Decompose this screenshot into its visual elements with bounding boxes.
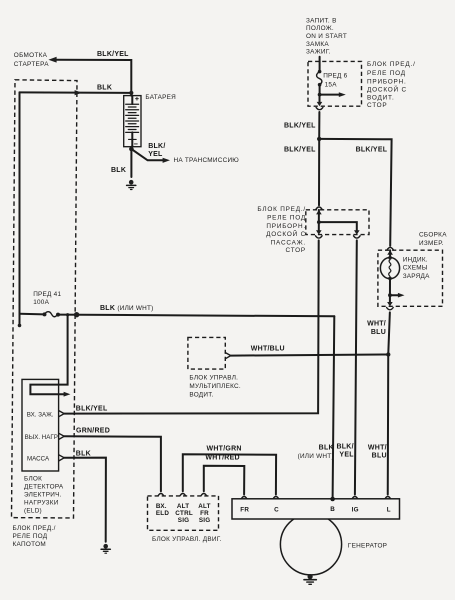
svg-text:МАССА: МАССА	[27, 455, 50, 462]
connector dome at generator IG	[352, 497, 358, 499]
svg-text:ON И START: ON И START	[306, 33, 347, 40]
svg-text:BLK/YEL: BLK/YEL	[97, 51, 129, 58]
svg-text:ВОДИТ.: ВОДИТ.	[367, 95, 395, 102]
svg-text:GRN/RED: GRN/RED	[76, 428, 110, 435]
ECM box БЛОК УПРАВЛ. ДВИГ. (dashed)	[148, 496, 219, 530]
branch arrow inside fuse box (feed to other circuits)	[318, 92, 346, 97]
svg-text:СТОР: СТОР	[367, 102, 387, 109]
svg-text:ЭЛЕКТРИЧ.: ЭЛЕКТРИЧ.	[24, 492, 62, 499]
svg-text:ДОСКОЙ С: ДОСКОЙ С	[266, 229, 306, 238]
fuse F6 15A element	[317, 70, 322, 95]
svg-text:СТАРТЕРА: СТАРТЕРА	[14, 61, 49, 68]
svg-text:БЛОК УПРАВЛ.: БЛОК УПРАВЛ.	[189, 375, 238, 382]
ground G2 (generator)	[304, 574, 316, 584]
svg-text:BLK/YEL: BLK/YEL	[356, 147, 388, 154]
pin fork ВЫХ.НАГР	[59, 433, 64, 439]
wire WHT/BLU gauge assembly down to generator L	[386, 312, 390, 494]
svg-text:BLU: BLU	[372, 453, 387, 460]
svg-text:ПРЕД 41: ПРЕД 41	[33, 291, 61, 298]
svg-text:BLK: BLK	[319, 444, 334, 451]
svg-text:BLK/: BLK/	[336, 443, 353, 450]
svg-text:BLK: BLK	[111, 167, 126, 174]
svg-text:ВЫХ. НАГР: ВЫХ. НАГР	[25, 434, 58, 441]
connector dome at ECM ВХ.ELD	[158, 494, 164, 496]
fuse F6 15A feed stub from ignition switch	[319, 57, 321, 72]
wire: left bus vertical inside under-hood box	[18, 92, 22, 327]
connector entry at top of gauge assembly (cup + arrow)	[387, 247, 394, 254]
svg-text:B: B	[330, 506, 335, 513]
pin fork of multiplex control unit	[225, 353, 230, 359]
wires inside passenger box with junction	[317, 210, 357, 231]
junction dot at terminal B	[330, 497, 335, 502]
svg-text:ПРЕД 6: ПРЕД 6	[323, 73, 347, 80]
wire B vertical to generator	[333, 316, 335, 499]
svg-text:ПОЛОЖ.: ПОЛОЖ.	[306, 25, 334, 32]
wire WHT/GRN ALT CTRL SIG to generator C	[180, 454, 279, 499]
wire BLK/YEL passenger box down to generator IG	[355, 240, 357, 494]
battery	[124, 96, 141, 147]
svg-text:НА ТРАНСМИССИЮ: НА ТРАНСМИССИЮ	[174, 157, 240, 164]
svg-text:ИЗМЕР.: ИЗМЕР.	[419, 240, 444, 247]
branch arrow inside gauge assembly	[388, 278, 404, 297]
svg-text:BLK/: BLK/	[148, 143, 165, 150]
svg-text:C: C	[274, 507, 279, 514]
svg-text:ИНДИК.: ИНДИК.	[403, 257, 428, 264]
svg-text:L: L	[387, 506, 391, 513]
wire BLK/YEL fuse 6 down to split	[317, 112, 321, 141]
svg-text:КАПОТОМ: КАПОТОМ	[13, 541, 47, 548]
svg-text:WHT/BLU: WHT/BLU	[251, 346, 285, 353]
svg-text:ЗАРЯДА: ЗАРЯДА	[403, 273, 430, 280]
svg-text:WHT/RED: WHT/RED	[205, 454, 239, 461]
fuse F41 100A with terminal dots	[20, 312, 61, 317]
wire BLK (ИЛИ WHT) bus to generator B	[58, 312, 334, 317]
svg-text:ПРИБОРН.: ПРИБОРН.	[367, 78, 407, 85]
svg-text:WHT/GRN: WHT/GRN	[207, 445, 242, 452]
connector exits at bottom of passenger box (arrows + cups)	[316, 230, 361, 238]
svg-text:СТОР: СТОР	[286, 247, 306, 254]
multiplex control unit box (dashed)	[188, 337, 225, 369]
charge indicator lamp	[380, 250, 399, 280]
wire BLK/YEL left branch down to passenger fuse box	[318, 139, 320, 205]
svg-text:НАГРУЗКИ: НАГРУЗКИ	[24, 500, 59, 507]
svg-text:IG: IG	[352, 506, 359, 513]
wire GRN/RED ELD to ECM	[64, 436, 161, 491]
svg-text:SIG: SIG	[178, 517, 189, 524]
wire: ELD load-sense feed loop	[30, 315, 70, 397]
svg-text:YEL: YEL	[339, 452, 354, 459]
svg-text:ВОДИТ.: ВОДИТ.	[189, 391, 213, 398]
svg-text:BLK/YEL: BLK/YEL	[284, 123, 316, 130]
svg-text:ELD: ELD	[156, 510, 169, 517]
svg-text:15А: 15А	[325, 81, 338, 88]
svg-text:ДОСКОЙ С: ДОСКОЙ С	[367, 84, 407, 93]
svg-text:WHT/: WHT/	[367, 321, 386, 328]
wire WHT/BLU multiplex unit to L wire junction	[231, 355, 388, 356]
svg-text:РЕЛЕ ПОД: РЕЛЕ ПОД	[367, 70, 406, 77]
svg-text:БЛОК ПРЕД./: БЛОК ПРЕД./	[367, 61, 416, 68]
pin fork МАССА	[59, 455, 64, 461]
svg-text:ГЕНЕРАТОР: ГЕНЕРАТОР	[348, 542, 387, 549]
generator terminal block	[232, 499, 400, 519]
svg-text:ПРИБОРН.: ПРИБОРН.	[266, 223, 306, 230]
svg-text:SIG: SIG	[199, 517, 210, 524]
svg-text:ЗАПИТ. В: ЗАПИТ. В	[306, 18, 337, 25]
svg-text:WHT/: WHT/	[368, 444, 387, 451]
connector exit at bottom of fuse box F6 (arrow + cup)	[316, 95, 323, 110]
wire WHT/RED ALT FR SIG to generator FR	[201, 466, 247, 499]
ground G3 (ELD)	[101, 544, 110, 553]
svg-text:BLK: BLK	[76, 450, 91, 457]
svg-text:БАТАРЕЯ: БАТАРЕЯ	[145, 94, 176, 101]
connector dome at generator L	[385, 497, 391, 499]
svg-text:РЕЛЕ ПОД: РЕЛЕ ПОД	[267, 215, 306, 222]
svg-text:(ELD): (ELD)	[24, 508, 42, 515]
wire BLK battery negative to ground	[129, 147, 134, 177]
svg-text:BLK/YEL: BLK/YEL	[76, 405, 108, 412]
svg-text:ВХ.: ВХ.	[156, 503, 167, 510]
svg-text:BLK: BLK	[97, 84, 112, 91]
fuse/relay box passenger side (dashed)	[306, 210, 369, 235]
wire BLK/YEL passenger box down to ELD ignition input	[64, 240, 319, 413]
svg-text:FR: FR	[240, 506, 249, 513]
svg-text:БЛОК ПРЕД./: БЛОК ПРЕД./	[257, 206, 306, 213]
wire BLK ELD ground lead	[64, 458, 106, 542]
wire BLK/YEL battery to transmission	[131, 149, 170, 163]
connector exit at bottom of gauge assembly (arrow + cup)	[387, 295, 394, 310]
pin fork ВХ.ЗАЖ	[59, 411, 64, 417]
svg-text:(ИЛИ WHT): (ИЛИ WHT)	[298, 453, 334, 460]
svg-text:БЛОК УПРАВЛ. ДВИГ.: БЛОК УПРАВЛ. ДВИГ.	[152, 536, 222, 543]
svg-text:BLU: BLU	[371, 329, 386, 336]
svg-text:СБОРКА: СБОРКА	[419, 231, 447, 238]
gauge assembly box (dashed)	[378, 250, 443, 306]
ELD box (solid)	[22, 379, 59, 471]
connector entry at top of passenger box (cup + arrow)	[316, 207, 323, 214]
svg-text:БЛОК ПРЕД./: БЛОК ПРЕД./	[13, 525, 56, 532]
wire BLK/YEL battery to starter winding	[48, 57, 131, 96]
ground G1 (battery)	[127, 180, 136, 190]
svg-text:BLK/YEL: BLK/YEL	[284, 147, 316, 154]
svg-text:ЗАМКА: ЗАМКА	[306, 41, 329, 48]
svg-text:100А: 100А	[33, 299, 49, 306]
svg-text:YEL: YEL	[148, 151, 163, 158]
svg-text:РЕЛЕ ПОД: РЕЛЕ ПОД	[13, 533, 48, 540]
fuse/relay box dash side (dashed, fuse 6)	[308, 61, 362, 106]
svg-text:ПАССАЖ.: ПАССАЖ.	[271, 239, 306, 246]
svg-text:BLK (ИЛИ WHT): BLK (ИЛИ WHT)	[100, 305, 154, 312]
wire BLK/YEL branch to gauge assembly	[319, 139, 391, 246]
svg-text:ДЕТЕКТОРА: ДЕТЕКТОРА	[24, 484, 64, 491]
svg-text:МУЛЬТИПЛЕКС.: МУЛЬТИПЛЕКС.	[189, 383, 241, 390]
wire BLK battery to under-hood bus	[20, 90, 134, 95]
generator body circle	[280, 514, 341, 575]
svg-text:БЛОК: БЛОК	[24, 476, 42, 483]
svg-text:ВХ. ЗАЖ.: ВХ. ЗАЖ.	[27, 411, 54, 418]
svg-text:ЗАЖИГ.: ЗАЖИГ.	[306, 49, 331, 56]
svg-text:СХЕМЫ: СХЕМЫ	[403, 265, 428, 272]
under-hood fuse/relay box (dashed enclosure)	[12, 80, 78, 518]
svg-text:ОБМОТКА: ОБМОТКА	[14, 52, 48, 59]
